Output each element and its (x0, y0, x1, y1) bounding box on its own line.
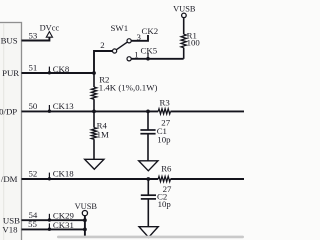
svg-text:VUSB: VUSB (173, 4, 196, 13)
junction node CK8/R2/SW (92, 71, 96, 75)
svg-text:52: 52 (29, 169, 38, 179)
svg-text:1.4K (1%,0.1W): 1.4K (1%,0.1W) (99, 83, 158, 93)
resistor R2 (91, 73, 157, 111)
power port DVcc (40, 23, 60, 37)
resistor R3 (series in DP line) (158, 98, 170, 115)
svg-text:R3: R3 (160, 98, 171, 108)
svg-text:51: 51 (29, 62, 38, 72)
svg-text:CK13: CK13 (53, 101, 75, 111)
capacitor C1 (140, 111, 171, 160)
power port VUSB (bottom) (75, 202, 98, 216)
power port VUSB (top) (173, 4, 196, 17)
svg-text:1M: 1M (97, 130, 109, 140)
svg-text:V18: V18 (2, 225, 18, 235)
svg-text:CK2: CK2 (142, 26, 159, 36)
net label CK29 tick (48, 210, 75, 221)
wire pin55 CK31 net (22, 228, 85, 230)
wire SW1 pin1 CK5 net (131, 58, 183, 60)
switch SW1 (100, 23, 141, 61)
svg-text:R6: R6 (161, 164, 172, 174)
svg-text:CK31: CK31 (53, 220, 74, 230)
svg-text:CK18: CK18 (53, 169, 75, 179)
svg-text:100: 100 (187, 37, 201, 47)
frame edge (grey band bottom) (57, 236, 244, 239)
svg-text:50: 50 (29, 101, 38, 111)
wire pin54 CK29 net (22, 219, 85, 221)
svg-text:/DM: /DM (1, 174, 18, 184)
svg-text:CK29: CK29 (53, 210, 75, 220)
wire pin53 to DVcc (22, 37, 50, 40)
net label CK5 tick (141, 46, 158, 61)
junction node VUSB/CK31 (83, 228, 87, 232)
svg-text:CK5: CK5 (141, 46, 158, 56)
svg-text:0/DP: 0/DP (0, 106, 17, 116)
svg-text:53: 53 (29, 30, 38, 40)
svg-text:10p: 10p (158, 199, 172, 209)
svg-text:DVcc: DVcc (40, 23, 60, 32)
junction node VUSB/CK29 (83, 218, 87, 222)
capacitor C2 (141, 179, 172, 226)
wire pin51 CK8 net (22, 72, 95, 74)
wire VUSB vertical (84, 216, 86, 237)
junction node CK18/C2 (146, 177, 150, 181)
svg-text:SW1: SW1 (111, 23, 129, 33)
junction node CK13/C1 (146, 110, 150, 114)
svg-text:2: 2 (100, 40, 104, 50)
svg-text:VUSB: VUSB (75, 202, 98, 211)
net label CK31 tick (48, 220, 74, 231)
svg-text:CK8: CK8 (53, 64, 70, 74)
net label CK8 tick (48, 64, 70, 75)
net label CK18 tick (48, 169, 75, 181)
resistor R6 (series in DM line) (158, 164, 172, 182)
svg-text:BUS: BUS (1, 36, 18, 46)
ground (R4) (85, 159, 104, 169)
svg-text:10p: 10p (157, 134, 171, 144)
wire SW1 pin3 CK2 stub (131, 35, 148, 41)
wire SW1 pin2 vertical (94, 51, 112, 73)
ground (C1) (139, 161, 158, 171)
wire pin50 CK13 net (22, 110, 159, 112)
resistor R4 (91, 111, 109, 159)
ground (C2) (139, 227, 158, 238)
svg-text:PUR: PUR (2, 68, 19, 78)
resistor R1 (181, 18, 200, 59)
junction node CK13/R2/R4 (92, 110, 96, 114)
net label CK13 tick (48, 101, 75, 113)
IC box U (sheet symbol, cut off at left edge) (0, 23, 22, 240)
wire pin52 CK18 net (22, 178, 159, 180)
